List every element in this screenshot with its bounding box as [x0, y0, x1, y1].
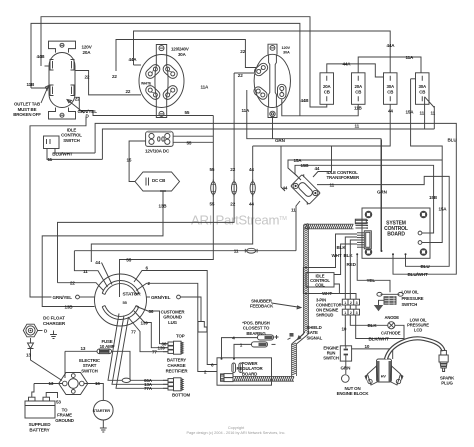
- svg-text:120/240V: 120/240V: [171, 47, 189, 52]
- svg-text:2: 2: [350, 311, 352, 315]
- svg-text:11: 11: [234, 249, 239, 254]
- svg-text:139: 139: [158, 346, 166, 351]
- svg-text:22: 22: [112, 74, 117, 79]
- svg-text:22: 22: [70, 281, 75, 286]
- svg-text:44A: 44A: [129, 57, 138, 62]
- connector inline 22: [232, 180, 237, 197]
- wire duplex 44B stub: [45, 65, 49, 67]
- svg-text:BLK: BLK: [368, 323, 378, 328]
- wire fuse right down: [112, 351, 131, 380]
- connector inline 11: [247, 248, 256, 253]
- svg-text:CATHODE: CATHODE: [381, 331, 401, 336]
- wire pin1 link: [344, 305, 346, 309]
- wire YEL: [357, 258, 390, 292]
- prong 240V bottom-left: [144, 84, 162, 101]
- wire 13A run: [112, 316, 168, 385]
- prong 120V30 right: [278, 84, 287, 99]
- wire 22 duplex to 240V: [76, 71, 142, 95]
- screw 240V top: [159, 46, 164, 51]
- breaker CB3 30A: [384, 73, 398, 105]
- fuse 10A: [97, 349, 112, 354]
- svg-text:3: 3: [356, 311, 358, 315]
- wire grnyel right stub: [146, 296, 150, 298]
- svg-text:55: 55: [126, 257, 131, 262]
- svg-text:1: 1: [344, 311, 346, 315]
- svg-text:44: 44: [388, 109, 393, 114]
- svg-text:22: 22: [85, 75, 90, 80]
- wire 11A CB2-CB4 link: [358, 57, 421, 73]
- bolt screw SCB BR: [421, 249, 426, 254]
- wire pin3 link: [355, 305, 357, 309]
- wire 44 transformer b: [281, 146, 285, 191]
- wire 44A stub into prong: [134, 64, 142, 66]
- wire 66A run b: [131, 379, 169, 381]
- receptacle 12V/10A DC: [146, 132, 174, 147]
- spark plug wire: [386, 338, 444, 359]
- electric start switch S2: [59, 373, 88, 395]
- wire 55 receptacle b: [173, 141, 213, 143]
- breaker DC CB: [135, 172, 180, 191]
- power regulator board: [217, 358, 272, 385]
- battery supplied: [25, 397, 55, 418]
- svg-text:11: 11: [83, 269, 88, 274]
- stator top winding: [102, 281, 139, 295]
- wire 22 chain: [58, 73, 235, 283]
- snubber arrow: [272, 303, 302, 309]
- svg-text:55: 55: [210, 202, 215, 207]
- wire charger D stub: [37, 330, 43, 332]
- shield band vertical lower: [292, 343, 297, 376]
- wire 15A tap CB4: [411, 78, 416, 80]
- breaker CB4 30A main: [416, 73, 430, 105]
- SCB GRN pin: [381, 140, 383, 253]
- wire 11 into stator: [74, 251, 107, 287]
- wire ground lug run: [180, 297, 201, 322]
- svg-text:44: 44: [249, 202, 254, 207]
- outlet J2 120/240V 30A body: [139, 45, 184, 118]
- svg-text:10: 10: [365, 344, 370, 349]
- SCB bottom pins: [356, 253, 406, 258]
- svg-text:13B: 13B: [65, 305, 74, 310]
- svg-text:FUSE10 AMP: FUSE10 AMP: [100, 339, 115, 349]
- svg-text:BLK: BLK: [344, 253, 354, 258]
- svg-text:11: 11: [355, 124, 360, 129]
- outlet J1 duplex 120V 20A body: [49, 41, 76, 119]
- svg-text:CB: CB: [355, 89, 361, 94]
- svg-text:44: 44: [315, 166, 320, 171]
- svg-text:55: 55: [185, 110, 190, 115]
- shield band horizontal top: [304, 224, 354, 229]
- svg-text:22: 22: [230, 202, 235, 207]
- wire 13 fuse left: [65, 350, 97, 352]
- low oil pressure switch: [377, 292, 403, 304]
- wire coil BLK: [334, 244, 357, 275]
- svg-text:13B: 13B: [159, 204, 168, 209]
- wire BLK/WHT led: [356, 315, 404, 339]
- breaker CB4 switch arm: [425, 97, 435, 108]
- svg-text:DC CB: DC CB: [152, 178, 165, 183]
- wire BLU 11 link: [317, 176, 449, 266]
- wire 6 run: [134, 271, 217, 365]
- wire GRN to nut: [345, 361, 347, 374]
- wire 15A run: [411, 79, 443, 243]
- wire 11B to CB2: [282, 99, 358, 116]
- svg-text:Copyright: Copyright: [228, 426, 245, 430]
- svg-text:BOTTOM: BOTTOM: [172, 393, 191, 398]
- ground starter: [100, 424, 107, 432]
- idle control coil: [306, 273, 334, 287]
- svg-text:13: 13: [49, 381, 54, 386]
- wire 44 transformer a: [313, 146, 332, 177]
- svg-text:BLK: BLK: [337, 245, 347, 250]
- svg-text:44: 44: [249, 167, 254, 172]
- outlet J3 120V 30A body: [254, 44, 290, 117]
- wire 55 outlet bottom: [76, 97, 214, 115]
- nut on engine block: [342, 375, 350, 383]
- svg-text:CB: CB: [419, 89, 425, 94]
- breaker CB2 20A: [352, 73, 366, 105]
- svg-text:11B: 11B: [27, 82, 36, 87]
- svg-text:77A: 77A: [144, 386, 153, 391]
- svg-text:77: 77: [152, 350, 157, 355]
- svg-text:ARI PartStreamTM: ARI PartStreamTM: [191, 213, 287, 228]
- svg-text:GRN: GRN: [341, 366, 352, 371]
- svg-text:22: 22: [240, 49, 245, 54]
- svg-text:11A: 11A: [242, 108, 251, 113]
- bolt screw SCB TR: [421, 212, 426, 217]
- screw duplex bottom: [60, 113, 64, 117]
- svg-text:1: 1: [344, 301, 346, 305]
- wire 4 brush: [222, 338, 258, 358]
- prong 240V top-left: [144, 63, 162, 80]
- lops ground arrow: [374, 300, 384, 311]
- svg-text:11: 11: [330, 182, 335, 187]
- wire BLU/WHT from switch: [55, 149, 95, 154]
- wire 11 bus: [102, 129, 434, 159]
- brush bottom (-): [252, 342, 276, 347]
- svg-text:11: 11: [431, 111, 436, 116]
- wire 15B transformer: [295, 165, 434, 233]
- wire 55 receptacle a: [173, 135, 213, 137]
- ignition coil: [365, 359, 404, 385]
- screw duplex top: [60, 43, 64, 47]
- fuse inline 66A: [122, 378, 130, 382]
- LED low oil pressure LCD: [388, 322, 395, 329]
- wire 22 bus top: [116, 40, 256, 72]
- SCB left connector block: [357, 231, 371, 249]
- wire battery pos: [32, 384, 34, 398]
- svg-text:66: 66: [149, 309, 154, 314]
- connector 3-pin lower: [342, 309, 359, 315]
- stator: [95, 274, 147, 326]
- svg-text:44A: 44A: [343, 62, 352, 67]
- svg-text:15B: 15B: [301, 163, 310, 168]
- duplex slots right: [71, 60, 75, 96]
- outlet tab arrow: [41, 86, 49, 104]
- svg-text:55: 55: [210, 167, 215, 172]
- wire 11B bus: [31, 23, 300, 115]
- svg-text:44: 44: [283, 186, 288, 191]
- svg-text:30A: 30A: [283, 49, 290, 54]
- svg-text:SUPPLIEDBATTERY: SUPPLIEDBATTERY: [29, 422, 52, 432]
- system control board U1: [362, 208, 430, 258]
- wire 11 lower bus: [74, 250, 296, 252]
- svg-text:53: 53: [56, 400, 61, 405]
- wire 13B chain: [42, 191, 163, 307]
- shield band jog: [292, 334, 309, 344]
- wire duplex 11B stub: [31, 87, 49, 89]
- svg-text:10: 10: [342, 326, 347, 331]
- svg-text:15A: 15A: [406, 110, 415, 115]
- svg-text:13: 13: [26, 353, 31, 358]
- svg-text:11A: 11A: [201, 85, 210, 90]
- stator bottom winding: [102, 306, 139, 320]
- svg-text:3: 3: [356, 301, 358, 305]
- svg-text:WHITE: WHITE: [141, 81, 152, 85]
- wire 11 from switch: [47, 149, 102, 160]
- snubber connector housing: [355, 219, 366, 224]
- wire charger to diode: [30, 338, 32, 343]
- transformer T1 idle control: [290, 174, 322, 206]
- breaker CB1 20A: [320, 73, 334, 105]
- wire 22 inline top link: [234, 72, 254, 74]
- wire GRN screw drop: [272, 117, 274, 139]
- svg-text:55: 55: [187, 141, 192, 146]
- shield band vertical upper: [304, 224, 309, 335]
- wire 44A bus: [134, 31, 391, 73]
- wire 77 run: [128, 317, 168, 352]
- diode charger: [28, 343, 34, 349]
- svg-text:22: 22: [126, 89, 131, 94]
- svg-text:BATTERYCHARGERECTIFIER: BATTERYCHARGERECTIFIER: [166, 358, 189, 374]
- power reg board pins: [221, 363, 243, 382]
- svg-text:GRN: GRN: [377, 190, 388, 195]
- svg-text:2: 2: [350, 301, 352, 305]
- wire grnyel into stator: [79, 296, 94, 298]
- svg-text:STATOR: STATOR: [123, 291, 142, 297]
- svg-text:44: 44: [95, 260, 100, 265]
- svg-text:120V: 120V: [82, 45, 93, 50]
- wire 22 into stator: [58, 283, 104, 291]
- svg-text:139: 139: [141, 320, 149, 325]
- svg-text:44B: 44B: [37, 54, 46, 59]
- svg-text:WHT: WHT: [332, 253, 342, 258]
- connector rectifier bottom: [163, 378, 183, 391]
- wire 13 down to switch: [64, 351, 66, 378]
- prong 240V top-right: [161, 63, 179, 80]
- wire 44 diagonal: [102, 263, 113, 285]
- svg-text:15: 15: [127, 158, 132, 163]
- svg-text:SNUBBERFEEDBACK: SNUBBERFEEDBACK: [250, 299, 274, 309]
- wire 77A run: [116, 317, 168, 388]
- wire 11 CB4 pole: [424, 97, 426, 129]
- connector inline 44: [250, 180, 255, 197]
- duplex slots left: [50, 60, 54, 96]
- svg-text:BLU: BLU: [421, 264, 431, 269]
- wire 66A run a: [108, 314, 122, 381]
- prong 120V30 top-left: [253, 62, 270, 78]
- svg-text:BLU: BLU: [448, 137, 458, 142]
- bolt screw SCB TL: [366, 212, 371, 217]
- wire 11A to GRN bus: [247, 90, 381, 251]
- svg-text:11B: 11B: [354, 106, 363, 111]
- svg-text:HV: HV: [381, 375, 387, 379]
- wire 139 run: [134, 311, 168, 348]
- wire 2 run: [136, 283, 217, 371]
- wire 15 to DC CB: [129, 141, 146, 182]
- svg-text:CB: CB: [387, 89, 393, 94]
- wire battery 53: [46, 393, 57, 399]
- svg-text:44B: 44B: [301, 98, 310, 103]
- spark plug: [439, 351, 448, 372]
- idle control switch S1: [44, 136, 60, 149]
- wire 11 transformer b: [296, 201, 300, 251]
- screw 120V30 top: [270, 46, 275, 51]
- svg-text:44A: 44A: [387, 43, 396, 48]
- svg-text:RED: RED: [347, 262, 357, 267]
- shield band horizontal bottom: [233, 376, 294, 381]
- wire pin2 link: [349, 305, 351, 309]
- svg-text:77: 77: [131, 329, 136, 334]
- svg-text:13: 13: [81, 346, 86, 351]
- engine run switch S3: [340, 346, 351, 361]
- svg-text:BLK/WHT: BLK/WHT: [369, 336, 389, 341]
- svg-text:BLU/WHT: BLU/WHT: [408, 272, 428, 277]
- wire BLK to anode: [350, 315, 387, 325]
- wire 66 run: [137, 307, 169, 344]
- duplex ground arrow: [67, 100, 84, 114]
- SCB right terminals: [418, 231, 430, 244]
- wire 13 charger to switch: [31, 349, 63, 381]
- SCB left pins snubber feedback: [356, 220, 369, 229]
- bolt screw SCB BL: [366, 249, 371, 254]
- svg-text:15A: 15A: [439, 207, 448, 212]
- svg-text:GRN: GRN: [275, 138, 286, 143]
- wire 13 battery to switch: [34, 383, 63, 385]
- prong 240V bottom-right: [161, 84, 179, 101]
- svg-text:22: 22: [238, 73, 243, 78]
- wire coil lower stub: [334, 284, 339, 294]
- screw 120V30 bottom: [270, 111, 275, 116]
- ground charger: [50, 331, 57, 339]
- connector rectifier top: [163, 341, 183, 354]
- wire 10 to coil: [352, 349, 393, 359]
- svg-text:BLU/WHT: BLU/WHT: [52, 151, 72, 156]
- screw 240V bottom: [159, 111, 164, 116]
- wire starter ground: [102, 420, 104, 424]
- svg-text:SYSTEMCONTROLBOARD: SYSTEMCONTROLBOARD: [384, 221, 408, 238]
- wire 55 chain: [120, 116, 214, 298]
- wire 10 connector to ERS: [344, 315, 346, 346]
- wire 44 chain: [91, 146, 252, 262]
- starter motor: [94, 400, 114, 420]
- wire BLK drop: [345, 237, 357, 299]
- connector DC float charger: [23, 324, 37, 337]
- connector inline 55: [211, 180, 216, 197]
- wire GRN/YEL left run: [30, 117, 86, 298]
- wire 15A transformer: [288, 160, 442, 176]
- svg-text:Page design (c) 2004 - 2016 by: Page design (c) 2004 - 2016 by ARI Netwo…: [187, 431, 286, 435]
- svg-text:STARTER: STARTER: [93, 408, 111, 413]
- wire 11 CB4 arm down: [433, 106, 435, 129]
- svg-text:YEL: YEL: [367, 278, 376, 283]
- connector 3-pin upper: [342, 299, 359, 305]
- svg-text:30A: 30A: [178, 52, 187, 57]
- svg-text:11: 11: [420, 111, 425, 116]
- wire 1 brush: [234, 344, 252, 357]
- svg-text:CB: CB: [324, 89, 330, 94]
- prong 120V30 bottom-left: [252, 85, 269, 101]
- wire 44A CB1-CB3 link: [327, 64, 384, 77]
- svg-text:TOP: TOP: [176, 334, 185, 339]
- wire RED drop: [350, 240, 357, 299]
- shield arrow: [298, 332, 306, 340]
- svg-text:DC FLOATCHARGER: DC FLOATCHARGER: [43, 316, 66, 326]
- wire 44 CB3 down: [253, 104, 391, 146]
- brush top (+): [258, 333, 294, 340]
- customer ground lug: [198, 322, 207, 333]
- svg-text:20A: 20A: [83, 50, 92, 55]
- svg-text:11: 11: [291, 208, 296, 213]
- wire BLU/WHT bus: [95, 123, 456, 274]
- svg-text:22: 22: [230, 167, 235, 172]
- svg-text:11: 11: [48, 157, 53, 162]
- svg-text:11A: 11A: [406, 55, 415, 60]
- svg-text:GRN/YEL: GRN/YEL: [151, 295, 171, 300]
- wire 16 switch to starter: [84, 384, 103, 401]
- svg-text:ANODE: ANODE: [385, 315, 400, 320]
- wire 44B bus: [41, 17, 327, 107]
- svg-text:16: 16: [95, 381, 100, 386]
- svg-text:GRN/YEL: GRN/YEL: [53, 295, 73, 300]
- wire WHT drop: [303, 234, 357, 299]
- svg-text:12V/10A DC: 12V/10A DC: [145, 149, 170, 154]
